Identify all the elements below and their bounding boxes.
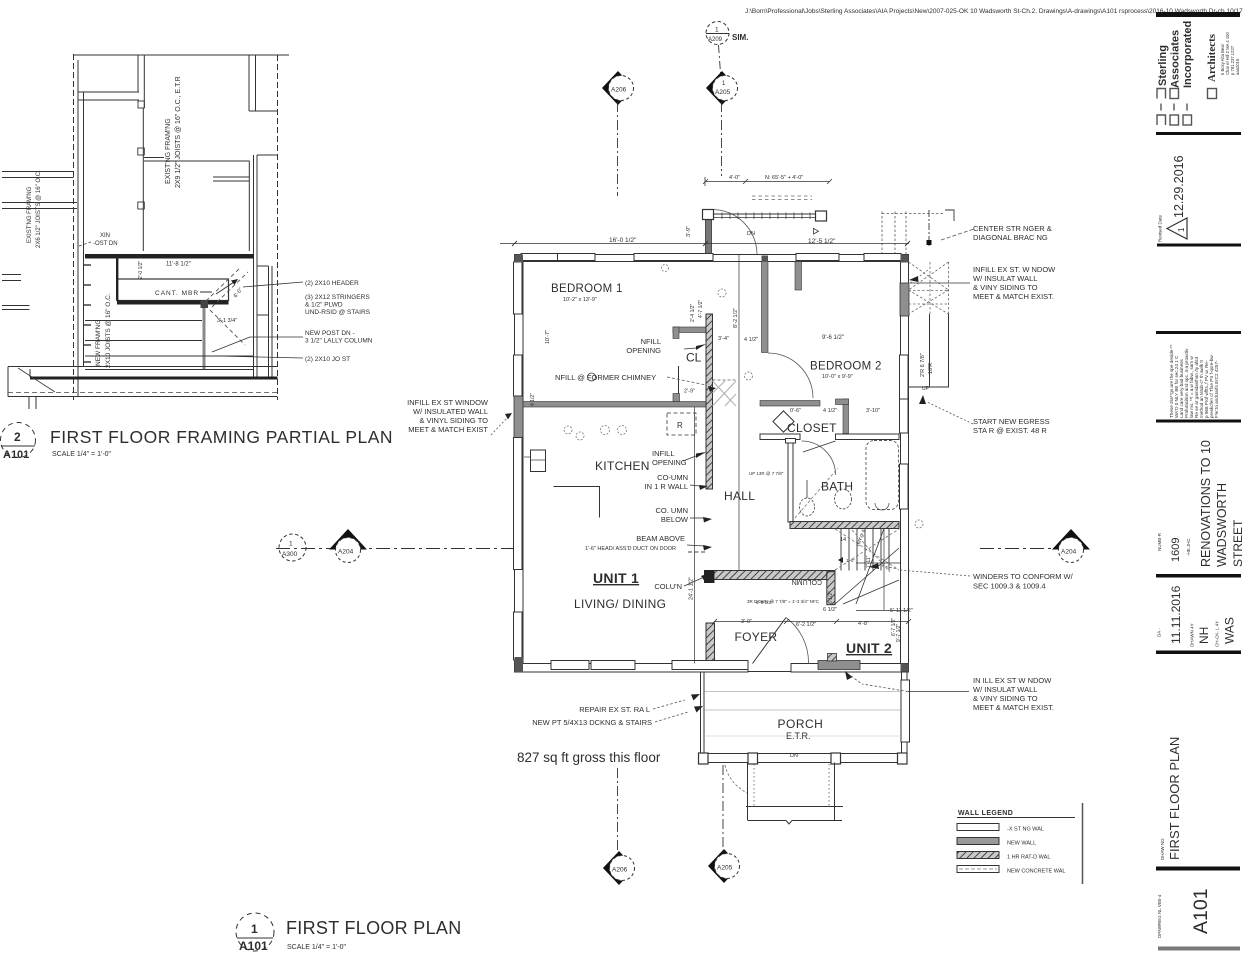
stair direction tiny arrow xyxy=(838,557,843,563)
svg-text:CLOSET: CLOSET xyxy=(787,421,837,435)
windows top wall xyxy=(521,254,595,261)
porch step curve leader xyxy=(725,765,747,793)
svg-text:A300: A300 xyxy=(282,551,298,558)
svg-text:Architects: Architects xyxy=(1206,33,1218,82)
1hr hatched wall stair return vertical xyxy=(827,572,835,605)
svg-text:UNIT 2: UNIT 2 xyxy=(846,640,892,656)
svg-text:2X10 JOISTS @ 16" O.C.: 2X10 JOISTS @ 16" O.C. xyxy=(105,293,112,368)
svg-text:6 1/2": 6 1/2" xyxy=(828,591,834,604)
bedroom2 door arc from hall xyxy=(768,353,813,398)
svg-text:BEDROOM 2: BEDROOM 2 xyxy=(810,361,882,373)
stoop dim line xyxy=(705,181,830,183)
svg-text:INFILL EX ST WINDOW: INFILL EX ST WINDOW xyxy=(407,398,489,407)
svg-text:INFILL: INFILL xyxy=(652,449,675,458)
svg-text:2X9 1/2" JOISTS @ 16" O.C., E.: 2X9 1/2" JOISTS @ 16" O.C., E.T.R xyxy=(175,76,182,188)
framing upper room wall vertical xyxy=(137,55,139,92)
interior gray wall CL top xyxy=(673,327,707,333)
svg-text:DHAW NG: DHAW NG xyxy=(1160,838,1165,860)
former chimney stub square xyxy=(673,394,680,402)
svg-text:16'-0 1/2": 16'-0 1/2" xyxy=(609,237,637,244)
svg-text:E.T.R.: E.T.R. xyxy=(786,731,811,741)
svg-text:-OST DN: -OST DN xyxy=(93,241,118,247)
hall vertical dim line xyxy=(738,255,740,571)
svg-text:3 1/2" LALLY COLUMN: 3 1/2" LALLY COLUMN xyxy=(305,338,373,345)
svg-text:Incorporated: Incorporated xyxy=(1182,21,1194,88)
svg-text:DA -: DA - xyxy=(1157,628,1162,637)
marker circle 1/A300 left xyxy=(279,534,306,561)
marker A204 left xyxy=(329,529,367,550)
svg-text:8'-2 1/2": 8'-2 1/2" xyxy=(733,308,739,328)
framing notes right column xyxy=(305,280,373,363)
svg-text:1: 1 xyxy=(715,27,719,34)
svg-text:UP 13R @ 7 7/8": UP 13R @ 7 7/8" xyxy=(749,471,784,476)
framing note leader lines xyxy=(212,282,303,358)
svg-text:BELOW: BELOW xyxy=(661,515,689,524)
svg-text:WAS: WAS xyxy=(1223,617,1237,644)
marker A205 top xyxy=(706,71,738,105)
svg-text:DN: DN xyxy=(747,231,755,237)
framing cantilever thick bottom flange xyxy=(117,301,229,305)
svg-text:10'-7": 10'-7" xyxy=(545,330,551,344)
framing top wall xyxy=(73,54,289,56)
logo squares grid xyxy=(1157,89,1192,126)
svg-text:NEW WALL: NEW WALL xyxy=(1007,841,1036,847)
svg-text:UP: UP xyxy=(922,386,930,392)
framing bottom sill lines xyxy=(8,367,278,410)
egress leader dotted xyxy=(927,402,973,424)
svg-text:COLU'N: COLU'N xyxy=(654,582,682,591)
svg-text:SEC 1009.3 & 1009.4: SEC 1009.3 & 1009.4 xyxy=(973,582,1046,591)
svg-text:1: 1 xyxy=(251,922,258,936)
svg-text:MEET & MATCH EXIST.: MEET & MATCH EXIST. xyxy=(973,703,1054,712)
svg-text:INFILL EX ST. W NDOW: INFILL EX ST. W NDOW xyxy=(973,265,1056,274)
left infill window note xyxy=(407,398,489,434)
porch steps landing lines xyxy=(746,806,843,808)
svg-text:A206: A206 xyxy=(612,867,628,874)
titleblock bar 4 xyxy=(1156,331,1241,334)
bedroom2 window stub gray wall xyxy=(795,262,802,291)
entry door swing arc xyxy=(712,210,757,255)
svg-text:2'-0 1/2": 2'-0 1/2" xyxy=(138,260,144,279)
svg-text:(2) 2X10 HEADER: (2) 2X10 HEADER xyxy=(305,280,359,287)
svg-text:NFILL: NFILL xyxy=(641,337,661,346)
svg-text:12'-5 1/2": 12'-5 1/2" xyxy=(808,238,836,245)
framing stair arrow xyxy=(216,282,234,294)
bottom right leader xyxy=(908,691,969,693)
svg-text:1: 1 xyxy=(1177,227,1186,232)
svg-text:NEW CONCRETE WAL: NEW CONCRETE WAL xyxy=(1007,869,1065,875)
winders leader xyxy=(900,570,970,576)
titleblock top bar xyxy=(1156,12,1240,17)
outer top wall xyxy=(515,255,909,262)
svg-text:3'-0": 3'-0" xyxy=(741,619,752,625)
svg-text:NUMB-R: NUMB-R xyxy=(1157,532,1162,551)
bath toilet xyxy=(800,498,815,516)
svg-text:1609: 1609 xyxy=(1170,538,1182,562)
svg-text:1'-6" HEAD/ ASS'D DUCT ON DO: 1'-6" HEAD/ ASS'D DUCT ON DOOR xyxy=(585,546,676,552)
windows bottom wall xyxy=(551,661,589,670)
porch floor lines xyxy=(704,691,901,693)
framing cantilever member outline xyxy=(117,279,229,301)
svg-text:1'-0": 1'-0" xyxy=(846,558,855,563)
framing upper room wall horizontal xyxy=(78,91,139,93)
svg-text:NH: NH xyxy=(1197,627,1211,644)
titleblock bar 3 xyxy=(1157,244,1241,247)
framing mid horizontal wall xyxy=(144,160,250,162)
svg-text:10'-0" x 9'-9": 10'-0" x 9'-9" xyxy=(822,374,853,380)
framing jamb notch 1 xyxy=(138,148,145,155)
framing lally column line xyxy=(203,308,206,370)
svg-text:DPAWREG NL VB5-4: DPAWREG NL VB5-4 xyxy=(1157,894,1162,938)
main plan title bubble xyxy=(236,913,274,951)
svg-text:NEW FRAM'NG: NEW FRAM'NG xyxy=(95,320,102,366)
porch right window xyxy=(901,680,910,742)
svg-text:A101: A101 xyxy=(3,449,29,461)
svg-text:3'-4": 3'-4" xyxy=(718,336,729,342)
egress stair lower walls xyxy=(929,314,931,387)
svg-text:CL: CL xyxy=(686,351,702,365)
infill window note right xyxy=(973,265,1056,301)
wall corner poche bottom-right xyxy=(901,664,909,673)
framing thick bearing wall xyxy=(85,254,254,259)
svg-text:F'er:to andUarfs ErC2 4257-: F'er:to andUarfs ErC2 4257- xyxy=(1214,360,1219,418)
svg-text:11'-8 1/2": 11'-8 1/2" xyxy=(166,262,191,268)
CL wall stub xyxy=(673,327,679,339)
svg-text:IN 1 R WALL: IN 1 R WALL xyxy=(645,482,688,491)
bath left wall xyxy=(788,440,793,522)
svg-text:A204: A204 xyxy=(1061,549,1077,556)
framing left wall line xyxy=(77,60,79,397)
A204 section line right xyxy=(980,548,1053,550)
titleblock bar 5 xyxy=(1156,420,1241,423)
small dashed circles (fixtures) xyxy=(564,265,923,529)
framing left wall joist ticks xyxy=(83,265,91,362)
framing jamb notch 2 xyxy=(138,202,145,209)
svg-text:DIAGONAL BRAC NG: DIAGONAL BRAC NG xyxy=(973,233,1048,242)
unit separation vertical line xyxy=(694,407,696,664)
svg-text:11.11.2016: 11.11.2016 xyxy=(1169,585,1183,644)
framing cant arrow xyxy=(200,291,212,293)
svg-text:1 HR RAT-D WAL: 1 HR RAT-D WAL xyxy=(1007,855,1050,861)
svg-text:FIRST FLOOR FRAMING PARTIAL PL: FIRST FLOOR FRAMING PARTIAL PLAN xyxy=(50,427,393,447)
left note leader xyxy=(491,419,506,435)
interior gray wall bedroom1/kitchen xyxy=(515,402,707,408)
bedroom2 bottom wall east xyxy=(836,434,900,440)
A204 section line left xyxy=(276,548,514,550)
framing right chimney wall xyxy=(248,55,250,111)
stoop right post xyxy=(816,211,827,221)
porch steps dotted stringers xyxy=(754,764,829,806)
titleblock bar 8 xyxy=(1156,867,1240,871)
framing long interior wall line xyxy=(142,108,144,251)
outer right wall xyxy=(901,255,909,673)
svg-text:3'-1 3/4": 3'-1 3/4" xyxy=(217,318,237,324)
framing interior short double wall xyxy=(213,176,249,178)
svg-text:START NEW EGRESS: START NEW EGRESS xyxy=(973,417,1050,426)
framing left dashed property line xyxy=(73,54,75,400)
svg-text:DN: DN xyxy=(790,753,798,759)
svg-text:& VINY SIDING TO: & VINY SIDING TO xyxy=(973,694,1038,703)
svg-text:4'-7 1/2": 4'-7 1/2" xyxy=(698,299,704,318)
svg-text:9'-6 1/2": 9'-6 1/2" xyxy=(822,335,844,341)
closet right gray wall xyxy=(843,399,849,434)
stair treads xyxy=(841,529,889,571)
svg-text:CANT. MBR: CANT. MBR xyxy=(155,290,199,297)
framing interior wall right vertical xyxy=(248,161,250,251)
framing right dashed edge xyxy=(277,55,279,400)
svg-text:3'-10": 3'-10" xyxy=(866,408,880,414)
svg-text:UND-RSID @ STAIRS: UND-RSID @ STAIRS xyxy=(305,309,371,316)
legend 1hr wall swatch xyxy=(957,852,999,859)
svg-text:Sterling: Sterling xyxy=(1157,45,1169,86)
kitchen sink xyxy=(531,450,546,472)
svg-text:& VINY SIDING TO: & VINY SIDING TO xyxy=(973,283,1038,292)
titleblock bar 7 xyxy=(1156,651,1241,655)
svg-text:PORCH: PORCH xyxy=(778,717,824,731)
svg-text:2'-9": 2'-9" xyxy=(684,389,695,395)
wall corner poche top-right xyxy=(901,255,909,263)
framing plan title bubble xyxy=(1,423,36,458)
svg-text:OPENING: OPENING xyxy=(626,346,661,355)
svg-text:6'-9 1/2": 6'-9 1/2" xyxy=(756,600,773,605)
architects square xyxy=(1208,89,1217,99)
svg-text:A206: A206 xyxy=(611,87,627,94)
svg-text:4'-0": 4'-0" xyxy=(729,175,740,181)
winder fan lines xyxy=(835,529,899,605)
stair corner bracket xyxy=(945,210,954,221)
titleblock bar 6 xyxy=(1156,574,1241,578)
closet top gray wall xyxy=(760,401,820,407)
svg-text:3'-9": 3'-9" xyxy=(686,226,692,237)
1hr hatched wall foyer horizontal xyxy=(707,571,835,580)
marker A206 bottom xyxy=(603,851,635,885)
porch steps side rails xyxy=(748,763,835,821)
svg-text:R: R xyxy=(677,421,683,430)
left wall gray infill window xyxy=(514,396,523,438)
svg-text:HALL: HALL xyxy=(724,489,755,503)
bottom wall hatched post xyxy=(828,654,837,662)
framing cantilever thick left edge xyxy=(116,259,118,301)
chimney X infill xyxy=(713,381,737,406)
framing diagonal tick bottom-left xyxy=(18,368,55,392)
wall corner poche bottom-left xyxy=(515,657,524,672)
copyright notes tiny rotated block xyxy=(1169,344,1219,418)
stoop balusters xyxy=(722,213,810,220)
entry threshold line xyxy=(748,671,791,673)
egress stair braces below wall xyxy=(909,262,949,314)
foyer entry door leaf xyxy=(753,618,787,664)
svg-text:NEW PT 5/4X13 DCKNG & STAIRS: NEW PT 5/4X13 DCKNG & STAIRS xyxy=(532,718,652,727)
svg-text:4 1/2": 4 1/2" xyxy=(823,408,837,414)
svg-text:EXIST'NG FRAM'NG: EXIST'NG FRAM'NG xyxy=(165,118,172,184)
outer left wall xyxy=(515,255,524,664)
svg-text:WINDERS TO CONFORM W/: WINDERS TO CONFORM W/ xyxy=(973,572,1074,581)
svg-text:W/ INSULAT WALL: W/ INSULAT WALL xyxy=(973,685,1037,694)
svg-text:(3) 2X12 STRINGERS: (3) 2X12 STRINGERS xyxy=(305,294,370,301)
right infill leader xyxy=(910,282,970,284)
svg-text:9'-7 1/2": 9'-7 1/2" xyxy=(896,623,902,642)
1hr hatched wall bath/stair xyxy=(790,522,899,529)
svg-text:0'-6": 0'-6" xyxy=(790,408,801,414)
svg-text:UNIT 1: UNIT 1 xyxy=(593,570,639,586)
svg-text:-HE.JHC: -HE.JHC xyxy=(1186,538,1191,556)
kitchen counter line xyxy=(554,487,600,518)
titleblock bottom gray bar xyxy=(1158,947,1240,951)
stoop rail lines xyxy=(714,213,819,215)
svg-text:RENOVATIONS TO 10: RENOVATIONS TO 10 xyxy=(1199,440,1213,567)
svg-text:2: 2 xyxy=(14,430,21,444)
entry door leaf bar xyxy=(706,212,712,255)
svg-text:COLUMN: COLUMN xyxy=(792,578,822,585)
framing right stair shaft walls xyxy=(253,155,255,377)
svg-text:A209: A209 xyxy=(708,37,723,43)
foyer wall black end cap xyxy=(704,570,715,583)
framing left exterior stub walls xyxy=(2,171,74,173)
svg-text:2X6 1/2" JOISTS @ 16" O.C.: 2X6 1/2" JOISTS @ 16" O.C. xyxy=(36,170,42,248)
svg-text:CO-UMN: CO-UMN xyxy=(657,473,688,482)
svg-text:STA R @ EXIST. 48 R: STA R @ EXIST. 48 R xyxy=(973,426,1047,435)
bath tub xyxy=(866,441,899,510)
stair dim lines right xyxy=(883,528,885,610)
svg-text:XIN: XIN xyxy=(100,233,110,239)
windows left wall xyxy=(514,262,523,314)
porch right wall xyxy=(902,672,908,753)
svg-text:IN ILL EX ST W NDOW: IN ILL EX ST W NDOW xyxy=(973,676,1052,685)
revision triangle 1 xyxy=(1167,218,1187,239)
svg-text:4 1/2": 4 1/2" xyxy=(744,337,758,343)
framing bottom dashed line xyxy=(8,392,278,394)
foyer entry door arc xyxy=(786,618,809,664)
UPPER EGRESS STAIR DASHED (right of top wall) xyxy=(882,212,945,255)
marker A206 top xyxy=(602,71,634,105)
wall corner poche top-left xyxy=(515,255,524,263)
stoop left post xyxy=(703,210,714,220)
infill window note bottom right xyxy=(973,676,1054,712)
center stringer node xyxy=(927,240,932,245)
right wall gray infill window xyxy=(900,283,909,316)
svg-text:W/ INSULAT WALL: W/ INSULAT WALL xyxy=(973,274,1037,283)
svg-text:(2) 2X10 JO ST: (2) 2X10 JO ST xyxy=(305,356,350,363)
beam above dashed xyxy=(688,551,706,553)
svg-text:KITCHEN: KITCHEN xyxy=(595,459,650,473)
svg-text:CO. UMN: CO. UMN xyxy=(656,506,689,515)
svg-text:FIRST FLOOR PLAN: FIRST FLOOR PLAN xyxy=(286,918,462,938)
svg-text:BEAM ABOVE: BEAM ABOVE xyxy=(636,534,685,543)
svg-text:NEW POST DN -: NEW POST DN - xyxy=(305,330,355,337)
svg-text:Revised Date: Revised Date xyxy=(1158,214,1163,242)
bedroom2 left gray wall xyxy=(762,262,769,353)
foyer hatched wall bar xyxy=(706,623,715,661)
svg-text:6'-2 1/2": 6'-2 1/2" xyxy=(796,622,816,628)
legend concrete wall swatch xyxy=(957,866,999,873)
svg-text:A101: A101 xyxy=(239,939,268,953)
framing joist lines xyxy=(85,321,253,370)
refrigerator dashed box xyxy=(667,413,696,435)
porch bottom rail xyxy=(701,753,908,755)
svg-text:& 1/2" PLWD: & 1/2" PLWD xyxy=(305,302,343,309)
svg-text:NFILL @ FORMER CHIMNEY: NFILL @ FORMER CHIMNEY xyxy=(555,373,656,382)
svg-text:6'-0": 6'-0" xyxy=(233,287,244,299)
framing stair dashed diagonals xyxy=(206,268,248,345)
svg-text:12.29.2016: 12.29.2016 xyxy=(1172,155,1186,218)
bath sink xyxy=(835,489,852,509)
svg-text:6 1/2": 6 1/2" xyxy=(823,607,837,613)
unit2 dim line xyxy=(714,621,908,623)
bottom wall gray infill window xyxy=(818,661,860,670)
svg-text:4 1/2": 4 1/2" xyxy=(530,393,536,406)
outer bottom wall right portion xyxy=(791,664,909,673)
svg-text:FOYER: FOYER xyxy=(735,630,778,644)
center stringer dashdot xyxy=(928,210,930,246)
marker A204 right xyxy=(1052,529,1090,550)
porch left wall xyxy=(701,672,705,754)
svg-text:A205: A205 xyxy=(717,865,733,872)
svg-text:BEDROOM 1: BEDROOM 1 xyxy=(551,283,623,295)
leader to center stringer note xyxy=(941,229,974,240)
framing left wall inner line xyxy=(83,92,85,366)
svg-text:& VINYL SIDING TO: & VINYL SIDING TO xyxy=(419,416,488,425)
svg-text:14: 14 xyxy=(840,537,846,543)
svg-text:LIVING/ DINING: LIVING/ DINING xyxy=(574,597,666,611)
svg-text:SIM.: SIM. xyxy=(732,33,748,42)
1hr hatched wall chimney/hall vertical xyxy=(706,314,713,489)
legend right border line xyxy=(1082,803,1084,884)
svg-text:REPAIR EX ST. RA L: REPAIR EX ST. RA L xyxy=(579,705,650,714)
svg-text:1: 1 xyxy=(289,541,293,548)
svg-text:Associates: Associates xyxy=(1170,30,1182,88)
porch posts xyxy=(699,753,709,764)
svg-text:A205: A205 xyxy=(715,89,731,96)
former chimney wall line xyxy=(678,366,680,395)
svg-text:MEET & MATCH EXIST.: MEET & MATCH EXIST. xyxy=(973,292,1054,301)
svg-text:WADSWORTH: WADSWORTH xyxy=(1215,483,1229,567)
svg-text:2'-4 1/2": 2'-4 1/2" xyxy=(690,303,696,322)
stoop dashed roof lines xyxy=(752,195,812,197)
svg-text:4'-8": 4'-8" xyxy=(858,621,869,627)
marker A209 SIM top xyxy=(706,22,729,45)
svg-text:A101: A101 xyxy=(1190,888,1212,934)
svg-text:24'-1 1/2": 24'-1 1/2" xyxy=(689,577,695,600)
architects address tiny lines xyxy=(1220,32,1240,75)
svg-text:2'R 6 7/8": 2'R 6 7/8" xyxy=(920,353,926,377)
bedroom2 bottom wall west xyxy=(760,434,800,440)
svg-text:CENTER STR NGER &: CENTER STR NGER & xyxy=(973,224,1052,233)
closet diamond xyxy=(773,411,794,432)
svg-text:CH-CK- L 4Y: CH-CK- L 4Y xyxy=(1215,621,1220,647)
svg-text:STREET: STREET xyxy=(1231,519,1245,567)
svg-text:827 sq ft gross this floor: 827 sq ft gross this floor xyxy=(517,750,661,765)
svg-text:16'R: 16'R xyxy=(928,363,934,374)
svg-text:OPENING: OPENING xyxy=(652,458,687,467)
stair dashed braces xyxy=(795,468,899,572)
svg-text:N: 65'-5" + 4'-0": N: 65'-5" + 4'-0" xyxy=(765,175,803,181)
svg-text:MEET & MATCH EXIST: MEET & MATCH EXIST xyxy=(408,425,488,434)
svg-text:aaa2016: aaa2016 xyxy=(1235,58,1240,75)
outer bottom wall left portion xyxy=(515,664,749,673)
svg-text:DHAWN 4Y: DHAWN 4Y xyxy=(1190,623,1195,647)
svg-text:EXIST'NG FRAM'NG: EXIST'NG FRAM'NG xyxy=(27,186,33,243)
legend existing wall swatch xyxy=(957,824,999,831)
svg-text:WALL LEGEND: WALL LEGEND xyxy=(958,810,1013,817)
wall tee poche at bedroom2 top xyxy=(762,256,769,262)
marker A205 bottom xyxy=(708,849,740,883)
svg-text:FIRST FLOOR PLAN: FIRST FLOOR PLAN xyxy=(1167,737,1182,860)
bath wall top stub xyxy=(786,439,796,444)
svg-text:-X ST NG WAL: -X ST NG WAL xyxy=(1007,827,1044,833)
svg-text:SCALE 1/4" = 1'-0": SCALE 1/4" = 1'-0" xyxy=(287,944,347,951)
svg-text:5'-11 1/2": 5'-11 1/2" xyxy=(890,608,913,614)
svg-text:W/ INSULATED WALL: W/ INSULATED WALL xyxy=(413,407,488,416)
